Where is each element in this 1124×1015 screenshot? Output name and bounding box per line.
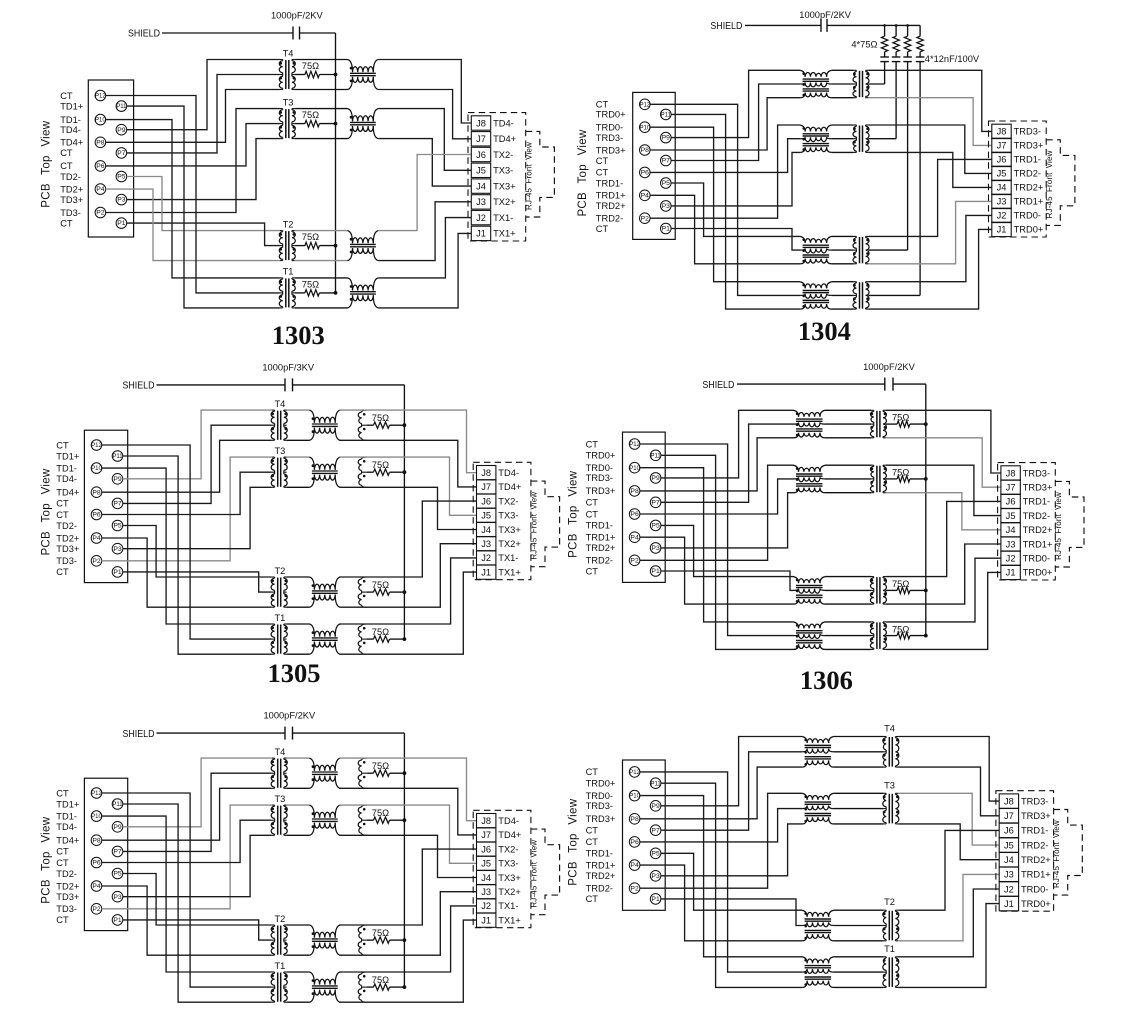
svg-text:T4: T4	[884, 724, 895, 734]
svg-text:1000pF/2KV: 1000pF/2KV	[271, 11, 323, 21]
svg-text:TRD3+: TRD3+	[586, 814, 616, 824]
svg-text:J5: J5	[476, 166, 486, 176]
svg-text:TX2+: TX2+	[493, 197, 515, 207]
svg-text:P2: P2	[92, 906, 101, 913]
svg-text:CT: CT	[60, 91, 73, 101]
svg-text:CT: CT	[596, 168, 609, 178]
svg-text:P2: P2	[92, 558, 101, 565]
svg-text:TRD2+: TRD2+	[1023, 525, 1053, 535]
svg-text:J8: J8	[476, 118, 486, 128]
svg-text:PCB Top View: PCB Top View	[40, 120, 52, 207]
svg-text:RJ-45 Front View: RJ-45 Front View	[1045, 150, 1054, 218]
svg-text:P3: P3	[117, 197, 126, 204]
svg-text:TX3-: TX3-	[498, 859, 518, 869]
svg-text:J1: J1	[997, 225, 1007, 235]
svg-text:TRD0+: TRD0+	[1023, 568, 1053, 578]
svg-text:P3: P3	[113, 546, 122, 553]
svg-text:CT: CT	[596, 224, 609, 234]
svg-text:1303: 1303	[272, 320, 325, 350]
svg-text:75Ω: 75Ω	[372, 928, 389, 938]
svg-text:75Ω: 75Ω	[302, 232, 319, 242]
svg-text:P5: P5	[117, 174, 126, 181]
svg-text:TX1-: TX1-	[498, 901, 518, 911]
svg-text:CT: CT	[56, 499, 69, 509]
svg-text:TRD1+: TRD1+	[1014, 197, 1044, 207]
svg-text:TRD1+: TRD1+	[1023, 539, 1053, 549]
svg-text:75Ω: 75Ω	[372, 460, 389, 470]
svg-text:TD2+: TD2+	[56, 881, 79, 891]
svg-text:P8: P8	[630, 816, 639, 823]
svg-text:TD4+: TD4+	[498, 482, 521, 492]
svg-text:TRD0+: TRD0+	[596, 110, 626, 120]
svg-text:TD2+: TD2+	[56, 533, 79, 543]
svg-text:P1: P1	[651, 568, 660, 575]
svg-text:P7: P7	[113, 501, 122, 508]
svg-text:T2: T2	[884, 897, 895, 907]
svg-text:TRD2-: TRD2-	[1014, 169, 1041, 179]
svg-text:P4: P4	[630, 534, 639, 541]
svg-text:CT: CT	[586, 767, 599, 777]
svg-text:P7: P7	[117, 150, 126, 157]
svg-text:TRD2-: TRD2-	[596, 214, 623, 224]
svg-text:TX1+: TX1+	[493, 229, 515, 239]
svg-text:TRD1-: TRD1-	[596, 178, 623, 188]
svg-text:P4: P4	[96, 186, 105, 193]
svg-text:4*12nF/100V: 4*12nF/100V	[925, 54, 980, 64]
svg-text:TRD1-: TRD1-	[1021, 826, 1048, 836]
svg-text:J3: J3	[1004, 870, 1014, 880]
svg-text:75Ω: 75Ω	[892, 624, 909, 634]
svg-text:T3: T3	[283, 97, 294, 107]
svg-text:TX1-: TX1-	[498, 553, 518, 563]
svg-text:SHIELD: SHIELD	[128, 29, 160, 40]
svg-text:TD4-: TD4-	[498, 816, 519, 826]
svg-text:TRD0+: TRD0+	[1021, 899, 1051, 909]
svg-text:TRD0+: TRD0+	[1014, 225, 1044, 235]
svg-text:TD2+: TD2+	[60, 184, 83, 194]
svg-text:1000pF/3KV: 1000pF/3KV	[262, 363, 314, 373]
svg-text:TD3+: TD3+	[56, 544, 79, 554]
svg-text:SHIELD: SHIELD	[710, 21, 742, 32]
svg-text:TRD3-: TRD3-	[1014, 127, 1041, 137]
svg-text:J1: J1	[1004, 899, 1014, 909]
svg-text:TRD0-: TRD0-	[1021, 884, 1048, 894]
svg-text:TD1+: TD1+	[60, 101, 83, 111]
svg-text:TRD0+: TRD0+	[586, 779, 616, 789]
svg-text:P10: P10	[639, 125, 650, 131]
svg-text:P6: P6	[630, 511, 639, 518]
svg-text:P9: P9	[113, 824, 122, 831]
svg-text:P8: P8	[96, 139, 105, 146]
svg-text:TX2-: TX2-	[493, 150, 513, 160]
svg-text:CT: CT	[56, 788, 69, 798]
svg-text:P1: P1	[662, 226, 671, 233]
svg-text:PCB Top View: PCB Top View	[41, 816, 53, 903]
svg-text:1305: 1305	[268, 658, 321, 688]
svg-text:TRD2-: TRD2-	[1023, 511, 1050, 521]
svg-text:RJ-45 Front View: RJ-45 Front View	[524, 142, 533, 210]
svg-text:TRD1+: TRD1+	[586, 533, 616, 543]
svg-text:J7: J7	[481, 830, 491, 840]
svg-text:P9: P9	[662, 135, 671, 142]
svg-text:TD2-: TD2-	[56, 521, 77, 531]
svg-text:CT: CT	[596, 156, 609, 166]
svg-text:P12: P12	[91, 791, 102, 797]
svg-text:J6: J6	[476, 150, 486, 160]
svg-text:P11: P11	[661, 113, 672, 119]
svg-text:CT: CT	[60, 218, 73, 228]
svg-text:P5: P5	[113, 871, 122, 878]
svg-text:TRD2+: TRD2+	[596, 201, 626, 211]
svg-text:TRD3+: TRD3+	[586, 486, 616, 496]
svg-text:J1: J1	[1006, 568, 1016, 578]
svg-text:T4: T4	[274, 399, 285, 409]
svg-text:J8: J8	[1006, 468, 1016, 478]
svg-text:TX3+: TX3+	[493, 181, 515, 191]
svg-text:TRD1-: TRD1-	[1023, 497, 1050, 507]
svg-text:RJ-45 Front View: RJ-45 Front View	[530, 840, 539, 908]
svg-text:T4: T4	[283, 48, 294, 58]
svg-text:75Ω: 75Ω	[372, 580, 389, 590]
svg-text:J4: J4	[997, 183, 1007, 193]
svg-text:75Ω: 75Ω	[892, 413, 909, 423]
svg-text:P10: P10	[91, 814, 102, 820]
svg-text:TRD0-: TRD0-	[586, 791, 613, 801]
svg-text:1000pF/2KV: 1000pF/2KV	[264, 711, 316, 721]
svg-text:75Ω: 75Ω	[302, 61, 319, 71]
svg-text:CT: CT	[56, 858, 69, 868]
svg-text:P10: P10	[95, 118, 106, 124]
svg-text:TX3-: TX3-	[493, 166, 513, 176]
svg-text:P8: P8	[641, 147, 650, 154]
svg-text:TRD2+: TRD2+	[1014, 183, 1044, 193]
svg-text:P11: P11	[650, 781, 661, 787]
svg-text:J3: J3	[476, 197, 486, 207]
svg-text:P5: P5	[113, 523, 122, 530]
svg-text:TX2+: TX2+	[498, 539, 520, 549]
svg-text:TRD3+: TRD3+	[1014, 141, 1044, 151]
svg-text:J2: J2	[481, 553, 491, 563]
svg-text:TRD0-: TRD0-	[1014, 211, 1041, 221]
svg-text:TD3+: TD3+	[56, 892, 79, 902]
svg-text:TRD2-: TRD2-	[586, 556, 613, 566]
svg-text:TD3-: TD3-	[56, 556, 77, 566]
svg-text:T2: T2	[274, 566, 285, 576]
svg-text:J6: J6	[1004, 826, 1014, 836]
svg-text:J7: J7	[1004, 811, 1014, 821]
svg-text:P7: P7	[662, 158, 671, 165]
svg-text:TD2-: TD2-	[56, 869, 77, 879]
svg-text:TRD1+: TRD1+	[596, 191, 626, 201]
svg-text:TRD3+: TRD3+	[1021, 811, 1051, 821]
svg-text:P4: P4	[630, 862, 639, 869]
svg-text:P8: P8	[92, 837, 101, 844]
svg-text:P12: P12	[95, 94, 106, 100]
svg-text:CT: CT	[586, 837, 599, 847]
svg-text:1304: 1304	[798, 316, 851, 346]
svg-text:TD4-: TD4-	[56, 474, 77, 484]
svg-text:TRD3+: TRD3+	[596, 145, 626, 155]
svg-text:CT: CT	[56, 915, 69, 925]
svg-text:CT: CT	[586, 566, 599, 576]
svg-text:75Ω: 75Ω	[372, 627, 389, 637]
svg-text:TD4+: TD4+	[56, 488, 79, 498]
svg-text:CT: CT	[56, 510, 69, 520]
svg-text:J1: J1	[481, 567, 491, 577]
svg-text:J8: J8	[1004, 796, 1014, 806]
svg-text:J8: J8	[481, 816, 491, 826]
svg-text:4*75Ω: 4*75Ω	[851, 40, 877, 50]
svg-text:J5: J5	[997, 169, 1007, 179]
svg-text:J4: J4	[481, 873, 491, 883]
svg-text:P1: P1	[117, 220, 126, 227]
svg-text:SHIELD: SHIELD	[123, 729, 155, 740]
svg-text:TD3-: TD3-	[56, 904, 77, 914]
svg-text:CT: CT	[586, 439, 599, 449]
svg-text:J8: J8	[997, 127, 1007, 137]
svg-text:PCB Top View: PCB Top View	[568, 470, 580, 557]
svg-text:J2: J2	[476, 213, 486, 223]
svg-text:CT: CT	[60, 148, 73, 158]
svg-text:J1: J1	[476, 229, 486, 239]
svg-text:T1: T1	[274, 961, 285, 971]
svg-text:TRD0-: TRD0-	[596, 123, 623, 133]
svg-text:TD3-: TD3-	[60, 208, 81, 218]
svg-text:TRD1+: TRD1+	[1021, 870, 1051, 880]
svg-text:T1: T1	[884, 944, 895, 954]
svg-text:P3: P3	[651, 545, 660, 552]
svg-text:SHIELD: SHIELD	[702, 380, 734, 391]
svg-text:T3: T3	[274, 794, 285, 804]
svg-text:TRD1+: TRD1+	[586, 860, 616, 870]
svg-text:75Ω: 75Ω	[892, 579, 909, 589]
svg-text:TX1-: TX1-	[493, 213, 513, 223]
svg-text:P3: P3	[662, 203, 671, 210]
svg-text:J5: J5	[481, 511, 491, 521]
svg-text:TD4+: TD4+	[498, 830, 521, 840]
svg-text:RJ-45 Front View: RJ-45 Front View	[1054, 492, 1063, 560]
svg-text:CT: CT	[586, 509, 599, 519]
svg-text:TRD0+: TRD0+	[586, 451, 616, 461]
svg-text:J6: J6	[481, 844, 491, 854]
svg-text:P7: P7	[651, 499, 660, 506]
svg-text:J3: J3	[481, 539, 491, 549]
svg-text:TRD1-: TRD1-	[586, 849, 613, 859]
svg-text:TRD3-: TRD3-	[1021, 796, 1048, 806]
svg-text:TRD2+: TRD2+	[586, 871, 616, 881]
svg-text:P6: P6	[96, 163, 105, 170]
svg-text:J7: J7	[476, 134, 486, 144]
svg-text:P4: P4	[92, 535, 101, 542]
svg-text:P2: P2	[641, 215, 650, 222]
svg-text:P2: P2	[630, 557, 639, 564]
svg-text:T3: T3	[884, 780, 895, 790]
svg-text:TX2+: TX2+	[498, 887, 520, 897]
svg-text:J7: J7	[997, 141, 1007, 151]
svg-text:75Ω: 75Ω	[302, 280, 319, 290]
svg-text:P10: P10	[91, 466, 102, 472]
svg-text:TX2-: TX2-	[498, 496, 518, 506]
svg-text:PCB Top View: PCB Top View	[577, 129, 589, 216]
svg-text:TRD2-: TRD2-	[586, 884, 613, 894]
svg-text:P12: P12	[639, 102, 650, 108]
svg-text:CT: CT	[586, 826, 599, 836]
svg-text:TRD2+: TRD2+	[586, 543, 616, 553]
svg-text:P1: P1	[651, 896, 660, 903]
svg-text:75Ω: 75Ω	[892, 468, 909, 478]
svg-text:J3: J3	[997, 197, 1007, 207]
svg-text:P1: P1	[113, 917, 122, 924]
svg-text:TD2-: TD2-	[60, 172, 81, 182]
svg-text:J7: J7	[481, 482, 491, 492]
svg-text:T2: T2	[283, 219, 294, 229]
svg-text:CT: CT	[586, 894, 599, 904]
svg-text:P2: P2	[96, 210, 105, 217]
svg-text:PCB Top View: PCB Top View	[41, 468, 53, 555]
svg-text:1000pF/2KV: 1000pF/2KV	[863, 362, 915, 372]
svg-text:TD1-: TD1-	[60, 115, 81, 125]
svg-text:P10: P10	[629, 466, 640, 472]
svg-text:P12: P12	[629, 770, 640, 776]
svg-text:TD1+: TD1+	[56, 799, 79, 809]
svg-text:P11: P11	[112, 802, 123, 808]
svg-text:P7: P7	[651, 827, 660, 834]
svg-text:T1: T1	[274, 613, 285, 623]
svg-text:TRD3-: TRD3-	[1023, 468, 1050, 478]
svg-text:J3: J3	[481, 887, 491, 897]
svg-text:TD3+: TD3+	[60, 195, 83, 205]
svg-text:P8: P8	[92, 489, 101, 496]
svg-text:P4: P4	[92, 883, 101, 890]
svg-text:P9: P9	[113, 476, 122, 483]
svg-text:1306: 1306	[800, 665, 853, 695]
svg-text:TX1+: TX1+	[498, 567, 520, 577]
svg-text:P6: P6	[630, 839, 639, 846]
svg-text:RJ-45 Front View: RJ-45 Front View	[1052, 820, 1061, 888]
svg-text:P11: P11	[112, 454, 123, 460]
svg-text:J1: J1	[481, 915, 491, 925]
svg-text:CT: CT	[56, 440, 69, 450]
svg-text:J2: J2	[1004, 884, 1014, 894]
svg-text:P6: P6	[92, 860, 101, 867]
svg-text:CT: CT	[586, 498, 599, 508]
svg-text:TRD0-: TRD0-	[586, 463, 613, 473]
svg-text:J5: J5	[481, 859, 491, 869]
svg-text:J5: J5	[1004, 840, 1014, 850]
svg-text:75Ω: 75Ω	[372, 761, 389, 771]
svg-text:TX3+: TX3+	[498, 873, 520, 883]
svg-text:TD4+: TD4+	[56, 836, 79, 846]
svg-text:CT: CT	[596, 100, 609, 110]
svg-text:75Ω: 75Ω	[372, 975, 389, 985]
svg-text:TRD2-: TRD2-	[1021, 840, 1048, 850]
svg-text:CT: CT	[56, 567, 69, 577]
svg-text:J2: J2	[481, 901, 491, 911]
svg-text:P5: P5	[662, 180, 671, 187]
svg-text:TRD3-: TRD3-	[586, 801, 613, 811]
svg-text:TD1+: TD1+	[56, 451, 79, 461]
svg-text:TRD1-: TRD1-	[1014, 155, 1041, 165]
svg-text:75Ω: 75Ω	[372, 808, 389, 818]
svg-text:TX3+: TX3+	[498, 525, 520, 535]
svg-text:TX1+: TX1+	[498, 915, 520, 925]
svg-text:TRD0-: TRD0-	[1023, 554, 1050, 564]
svg-text:TRD3-: TRD3-	[596, 133, 623, 143]
svg-text:P2: P2	[630, 885, 639, 892]
svg-text:P10: P10	[629, 794, 640, 800]
svg-text:J5: J5	[1006, 511, 1016, 521]
svg-text:J4: J4	[476, 181, 486, 191]
svg-text:J6: J6	[997, 155, 1007, 165]
svg-text:TD4-: TD4-	[56, 822, 77, 832]
svg-text:P1: P1	[113, 569, 122, 576]
svg-text:RJ-45 Front View: RJ-45 Front View	[530, 492, 539, 560]
svg-text:TRD2+: TRD2+	[1021, 855, 1051, 865]
svg-text:P5: P5	[651, 523, 660, 530]
svg-text:J6: J6	[1006, 497, 1016, 507]
svg-text:TD4-: TD4-	[498, 468, 519, 478]
svg-text:TRD3-: TRD3-	[586, 473, 613, 483]
svg-text:P11: P11	[650, 453, 661, 459]
svg-text:T3: T3	[274, 446, 285, 456]
svg-text:TRD1-: TRD1-	[586, 521, 613, 531]
svg-text:CT: CT	[60, 161, 73, 171]
svg-text:J4: J4	[481, 525, 491, 535]
svg-text:T1: T1	[283, 267, 294, 277]
svg-text:P6: P6	[641, 170, 650, 177]
svg-text:T4: T4	[274, 747, 285, 757]
svg-text:P12: P12	[91, 443, 102, 449]
svg-text:CT: CT	[56, 847, 69, 857]
svg-text:TX2-: TX2-	[498, 844, 518, 854]
svg-text:P9: P9	[117, 127, 126, 134]
svg-text:P3: P3	[651, 873, 660, 880]
svg-text:SHIELD: SHIELD	[123, 381, 155, 392]
svg-text:TX3-: TX3-	[498, 511, 518, 521]
svg-text:TD1-: TD1-	[56, 811, 77, 821]
svg-text:1000pF/2KV: 1000pF/2KV	[799, 10, 851, 20]
svg-text:P12: P12	[629, 442, 640, 448]
svg-text:P5: P5	[651, 850, 660, 857]
svg-text:PCB Top View: PCB Top View	[568, 798, 580, 885]
svg-text:P9: P9	[651, 803, 660, 810]
svg-text:P7: P7	[113, 849, 122, 856]
svg-text:75Ω: 75Ω	[372, 413, 389, 423]
svg-text:P6: P6	[92, 512, 101, 519]
svg-text:TD4+: TD4+	[60, 138, 83, 148]
svg-text:J3: J3	[1006, 539, 1016, 549]
svg-text:P8: P8	[630, 488, 639, 495]
svg-text:TD4-: TD4-	[60, 125, 81, 135]
svg-text:J7: J7	[1006, 483, 1016, 493]
svg-text:J2: J2	[1006, 554, 1016, 564]
svg-text:TD4-: TD4-	[493, 118, 514, 128]
svg-text:P4: P4	[641, 192, 650, 199]
svg-text:TD1-: TD1-	[56, 463, 77, 473]
svg-text:P3: P3	[113, 894, 122, 901]
svg-text:P9: P9	[651, 475, 660, 482]
svg-text:T2: T2	[274, 914, 285, 924]
svg-text:J2: J2	[997, 211, 1007, 221]
svg-text:J6: J6	[481, 496, 491, 506]
svg-text:J4: J4	[1006, 525, 1016, 535]
svg-text:J8: J8	[481, 468, 491, 478]
svg-text:P11: P11	[116, 104, 127, 110]
svg-text:75Ω: 75Ω	[302, 110, 319, 120]
svg-text:TD4+: TD4+	[493, 134, 516, 144]
svg-text:J4: J4	[1004, 855, 1014, 865]
svg-text:TRD3+: TRD3+	[1023, 483, 1053, 493]
